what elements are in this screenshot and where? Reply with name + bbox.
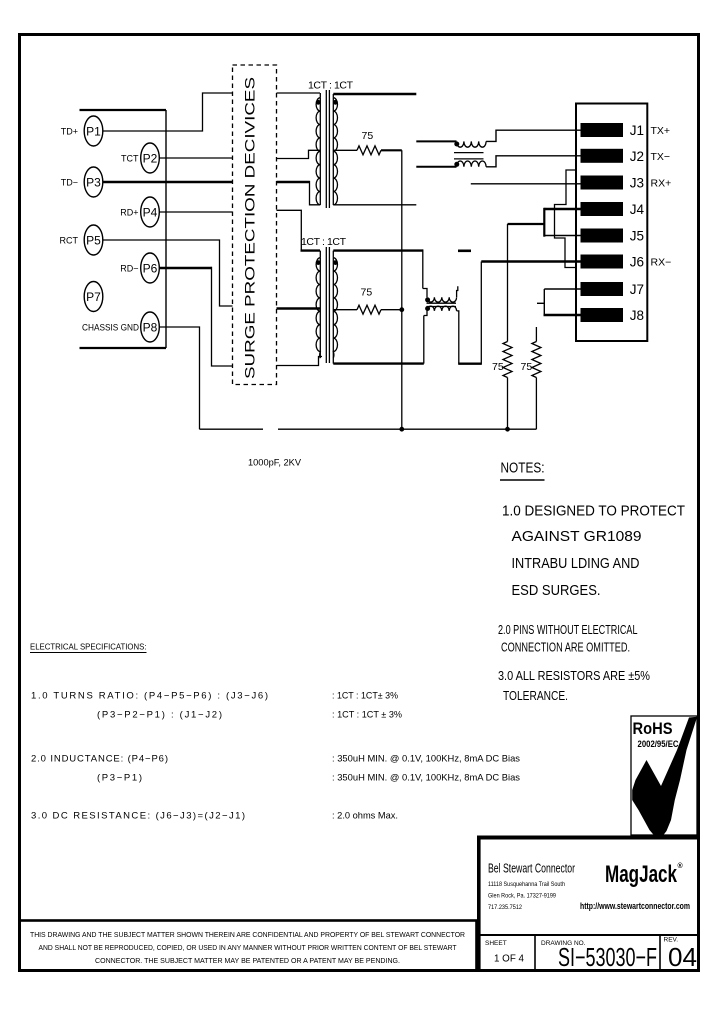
MagJack logo [605, 861, 684, 888]
svg-text:AGAINST GR1089: AGAINST GR1089 [512, 529, 642, 545]
svg-text:RoHS: RoHS [633, 719, 673, 738]
electrical specifications heading [30, 642, 147, 653]
svg-text:CHASSIS GND: CHASSIS GND [82, 323, 139, 333]
svg-text:P6: P6 [143, 262, 158, 276]
choke L1 core [454, 152, 484, 154]
svg-text:RCT: RCT [60, 236, 79, 246]
wire P5 to surge protector [103, 240, 233, 306]
notes heading [500, 461, 545, 481]
svg-text:: 350uH MIN. @ 0.1V, 100KHz,: : 350uH MIN. @ 0.1V, 100KHz, 8mA DC Bias [332, 754, 520, 765]
svg-text:TCT: TCT [121, 154, 139, 164]
wire P1 to surge protector [103, 93, 233, 131]
J4/J5 tie bracket [543, 208, 545, 237]
wire surge to T2 primary center tap [277, 307, 321, 309]
wire surge to T1 primary bottom [277, 181, 310, 183]
svg-text:04: 04 [668, 942, 697, 972]
spec 2.0 inductance [31, 754, 520, 784]
svg-text:P8: P8 [143, 321, 158, 335]
svg-text:P2: P2 [143, 152, 158, 166]
svg-text:SI−53030−F: SI−53030−F [558, 942, 657, 972]
pin J3 [581, 176, 672, 191]
wire T2 center tap to resistor R2 [333, 309, 357, 311]
svg-text:J7: J7 [630, 282, 644, 297]
spec 3.0 dc resistance [31, 811, 398, 822]
svg-text:1.0 TURNS RATIO: (P4−P5−P6): 1.0 TURNS RATIO: (P4−P5−P6) : (J3−J6) [31, 691, 268, 702]
svg-text:TD+: TD+ [61, 127, 78, 137]
svg-text:TOLERANCE.: TOLERANCE. [503, 689, 568, 703]
common-mode choke L1 top winding [457, 141, 487, 147]
pin J2 [581, 149, 671, 164]
wire surge to T2 primary top [277, 210, 302, 250]
wire R1 to ground rail [381, 149, 402, 151]
svg-text:AND SHALL NOT BE REPRODUCED, C: AND SHALL NOT BE REPRODUCED, COPIED, OR … [39, 943, 457, 952]
pin P7 [84, 282, 103, 312]
svg-text:RX−: RX− [651, 257, 672, 269]
T2 polarity dots [316, 260, 321, 265]
wire L2 top left lead [423, 289, 427, 298]
svg-text:J3: J3 [630, 176, 644, 191]
wire P8 chassis ground down [160, 327, 200, 429]
svg-text:TX+: TX+ [651, 125, 671, 137]
svg-text:11118 Susquehanna Trail South: 11118 Susquehanna Trail South [488, 881, 565, 888]
wire stub from J7/J8 bracket [537, 302, 544, 304]
pin J7 [581, 282, 645, 297]
wire P6 to surge protector [160, 267, 212, 269]
svg-text:2002/95/EC: 2002/95/EC [638, 739, 679, 749]
resistor R4 75 vertical [535, 327, 537, 342]
drawing number cell [541, 940, 657, 972]
wire surge to T2 primary bottom [277, 357, 323, 366]
rev cell [664, 937, 698, 973]
wire L2 bottom left lead [424, 311, 427, 316]
svg-text:1CT : 1CT: 1CT : 1CT [308, 80, 354, 92]
choke L2 core [427, 302, 457, 304]
svg-text:(P3−P1): (P3−P1) [97, 773, 142, 784]
pin P1 [84, 116, 103, 146]
pin P5 [84, 225, 103, 255]
svg-text:MagJack: MagJack [605, 861, 677, 888]
svg-text:RX+: RX+ [651, 178, 672, 190]
svg-text:SURGE PROTECTION DECIVICES: SURGE PROTECTION DECIVICES [242, 77, 258, 379]
wire P3 to surge protector [103, 181, 233, 183]
wire J8 [544, 314, 581, 316]
svg-text:TD−: TD− [61, 178, 78, 188]
svg-text:Bel Stewart Connector: Bel Stewart Connector [488, 862, 575, 876]
sheet cell [485, 940, 524, 965]
svg-text:THIS DRAWING AND THE SUBJECT M: THIS DRAWING AND THE SUBJECT MATTER SHOW… [30, 930, 466, 939]
wire L2 bottom to J6 riser [457, 311, 459, 364]
note 2.0 [498, 623, 638, 655]
wire surge to T1 primary top [277, 92, 321, 94]
wire J4 [544, 208, 580, 210]
pin P4 [141, 197, 160, 227]
note 1.0 [502, 504, 685, 600]
wire T2 secondary top to choke L2 [333, 249, 423, 251]
connector J block outline [576, 104, 647, 342]
J7/J8 tie bracket [543, 289, 545, 315]
svg-text:2.0 INDUCTANCE: (P4−P6): 2.0 INDUCTANCE: (P4−P6) [31, 754, 168, 765]
pin J6 [581, 255, 672, 270]
wire L1 top left lead [416, 140, 456, 142]
connector P outline [80, 110, 167, 348]
wire L1 bottom to J2 [486, 156, 580, 167]
svg-text:CONNECTOR. THE SUBJECT MATTER: CONNECTOR. THE SUBJECT MATTER MAY BE PAT… [95, 956, 400, 965]
wire R2 to vertical rail [381, 309, 402, 311]
svg-text:1 OF 4: 1 OF 4 [494, 954, 524, 965]
connector J block left-edge notch [555, 170, 577, 268]
svg-text:Glen Rock, Pa. 17327-9199: Glen Rock, Pa. 17327-9199 [488, 893, 556, 900]
svg-text:1000pF, 2KV: 1000pF, 2KV [248, 458, 301, 468]
spec 1.0 turns ratio [31, 691, 403, 721]
T1 polarity dots [316, 100, 321, 105]
svg-text:P4: P4 [143, 206, 158, 220]
wire resistor R3 to J4/J5 bracket [508, 223, 545, 225]
wire L1 bottom left lead [416, 166, 456, 168]
svg-text:: 1CT : 1CT ± 3%: : 1CT : 1CT ± 3% [332, 710, 403, 721]
pin J1 [581, 123, 671, 138]
wire T2 secondary bottom to choke L2 [333, 362, 424, 364]
svg-text:http://www.stewartconnector.co: http://www.stewartconnector.com [580, 901, 690, 912]
svg-text:CONNECTION ARE OMITTED.: CONNECTION ARE OMITTED. [501, 641, 630, 655]
wire T1 secondary top [333, 93, 416, 95]
svg-text:: 1CT : 1CT± 3%: : 1CT : 1CT± 3% [332, 691, 399, 702]
svg-text:75: 75 [492, 361, 504, 373]
svg-text:J4: J4 [630, 202, 645, 217]
svg-text:J8: J8 [630, 308, 644, 323]
pin J8 [581, 308, 645, 323]
wire J5 [544, 235, 580, 237]
svg-text:J5: J5 [630, 229, 644, 244]
svg-text:J6: J6 [630, 255, 644, 270]
wire vertical rail to bottom [401, 150, 403, 429]
resistor R2 75 [357, 305, 381, 314]
junction dot rail vertical [399, 427, 404, 432]
disclaimer text [30, 930, 466, 965]
pin J5 [581, 229, 645, 244]
svg-text:RD−: RD− [120, 264, 138, 274]
junction dot R3 ground rail [505, 427, 510, 432]
title block address [488, 881, 565, 911]
svg-text:: 350uH MIN. @ 0.1V, 100KHz,: : 350uH MIN. @ 0.1V, 100KHz, 8mA DC Bias [332, 773, 520, 784]
pin P3 [84, 167, 103, 197]
svg-text:TX−: TX− [651, 151, 671, 163]
wire L1 top to J1 [486, 130, 580, 141]
wire T1 secondary bottom [333, 204, 416, 206]
svg-text:3.0 DC RESISTANCE: (J6−J3)=(J: 3.0 DC RESISTANCE: (J6−J3)=(J2−J1) [31, 811, 245, 822]
wire L2 top right dangling hook [457, 286, 458, 297]
common-mode choke L2 bottom winding [427, 306, 457, 311]
svg-text:NOTES:: NOTES: [501, 461, 545, 477]
pin P6 [141, 253, 160, 283]
svg-text:P7: P7 [86, 290, 101, 304]
resistor R3 75 vertical [507, 224, 509, 342]
wire T1 center tap to resistor R1 [333, 149, 357, 151]
svg-text:: 2.0 ohms Max.: : 2.0 ohms Max. [332, 811, 398, 822]
RoHS logo box [631, 716, 697, 838]
RoHS checkmark [632, 717, 697, 838]
svg-text:P3: P3 [86, 176, 101, 190]
svg-text:75: 75 [361, 287, 373, 299]
svg-text:J1: J1 [630, 123, 644, 138]
svg-text:ELECTRICAL SPECIFICATIONS:: ELECTRICAL SPECIFICATIONS: [30, 642, 147, 652]
ground rail with capacitor gap [200, 428, 264, 430]
wire J7 [544, 288, 580, 290]
svg-text:ESD SURGES.: ESD SURGES. [512, 583, 601, 599]
junction dot rail R2 [399, 307, 404, 312]
surge protection devices box [233, 65, 277, 385]
resistor R1 75 [357, 146, 381, 155]
wire P4 to surge protector [160, 211, 233, 213]
svg-text:INTRABU LDING AND: INTRABU LDING AND [512, 556, 640, 572]
common-mode choke L1 bottom winding [457, 161, 487, 167]
svg-text:3.0 ALL RESISTORS ARE ±5%: 3.0 ALL RESISTORS ARE ±5% [498, 669, 650, 683]
svg-text:®: ® [678, 862, 684, 870]
svg-text:75: 75 [362, 130, 374, 142]
pin P8 [141, 312, 160, 342]
svg-text:75: 75 [521, 361, 533, 373]
disclaimer box [20, 921, 477, 971]
svg-text:1.0 DESIGNED TO PROTECT: 1.0 DESIGNED TO PROTECT [502, 504, 685, 520]
dangling stub segment [458, 250, 471, 253]
wire surge to T1 primary center tap [277, 150, 321, 158]
svg-text:P1: P1 [86, 125, 101, 139]
transformer T2 [316, 247, 337, 364]
wire J3 RX+ [471, 183, 581, 185]
svg-text:RD+: RD+ [120, 208, 138, 218]
svg-text:SHEET: SHEET [485, 940, 507, 947]
pin J4 [581, 202, 645, 217]
svg-text:P5: P5 [86, 234, 101, 248]
pin P2 [141, 143, 160, 173]
svg-text:1CT : 1CT: 1CT : 1CT [301, 236, 347, 248]
note 3.0 [498, 669, 650, 703]
transformer T1 [316, 90, 337, 208]
wire J6 RX- [481, 260, 580, 262]
wire P2 to surge protector [160, 157, 233, 159]
svg-text:2.0 PINS WITHOUT ELECTRICAL: 2.0 PINS WITHOUT ELECTRICAL [498, 623, 638, 637]
svg-text:717.235.7512: 717.235.7512 [488, 904, 522, 911]
common-mode choke L2 top winding [427, 297, 457, 302]
svg-text:J2: J2 [630, 149, 644, 164]
title block border [477, 838, 699, 972]
